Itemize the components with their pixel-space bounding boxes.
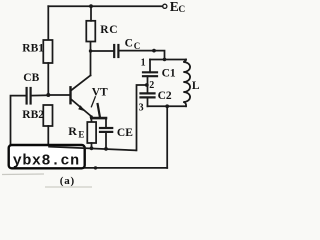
wire C2 bottom leg <box>147 97 149 106</box>
label EC <box>170 0 186 15</box>
node CC tap dot <box>89 49 92 52</box>
node RE rail dot <box>90 146 94 150</box>
svg-text:3: 3 <box>139 103 144 114</box>
resistor RE <box>87 122 96 143</box>
svg-text:ybx8.cn: ybx8.cn <box>13 152 80 169</box>
label CC <box>125 37 141 51</box>
label RE <box>68 124 84 140</box>
svg-text:VT: VT <box>92 86 108 98</box>
scan shadow marks <box>2 173 44 176</box>
watermark ybx8.cn box <box>9 145 85 168</box>
wire RC top to rail <box>90 6 92 21</box>
wire left column to RB1 <box>47 6 49 40</box>
svg-text:E: E <box>78 130 84 140</box>
node base junction dot <box>46 93 50 97</box>
wire C1 top leg <box>149 60 151 73</box>
wire CB right to base node <box>31 94 49 96</box>
wire tank top side <box>150 59 186 61</box>
wire C1 bottom to node 2 <box>147 76 149 85</box>
wire RE bottom leg <box>91 143 93 148</box>
svg-text:C: C <box>134 41 141 51</box>
node tank top junction dot <box>163 58 167 62</box>
svg-text:RB1: RB1 <box>22 42 44 54</box>
wire CC to tank feed <box>118 51 164 60</box>
svg-text:E: E <box>170 0 179 14</box>
wire CB left to left column <box>11 96 27 168</box>
capacitor CE <box>100 128 112 132</box>
wire collector up to RC <box>90 42 92 76</box>
node emitter dot <box>90 115 93 118</box>
node top junction dot <box>89 4 93 8</box>
wire tank bottom side <box>148 105 187 107</box>
svg-text:R: R <box>68 124 77 138</box>
capacitor C2 <box>141 93 155 97</box>
svg-text:C1: C1 <box>162 68 176 80</box>
wire emitter to CE <box>91 117 106 120</box>
wire base lead <box>48 94 69 96</box>
capacitor C1 <box>143 72 157 76</box>
wire emitter ground rail <box>48 147 136 151</box>
wire CE bottom leg <box>105 132 107 149</box>
wire ground rail bottom <box>11 167 168 169</box>
wire C2 top leg <box>147 85 149 93</box>
svg-text:L: L <box>192 80 200 92</box>
resistor RB2 <box>43 105 52 126</box>
wire RB1 bottom to base node <box>47 63 49 95</box>
wire CE top leg <box>105 118 107 128</box>
terminal EC open circle <box>163 4 167 8</box>
wire node 2 to left drop <box>137 85 147 150</box>
node ground rail blob <box>94 166 97 169</box>
svg-text:(a): (a) <box>60 175 75 187</box>
svg-text:CE: CE <box>117 127 133 139</box>
inductor L <box>183 60 190 107</box>
capacitor CC <box>114 45 118 57</box>
capacitor CB <box>27 88 31 104</box>
wire collector to CC <box>91 50 115 52</box>
svg-text:RC: RC <box>100 24 118 36</box>
transistor VT <box>71 75 92 116</box>
svg-text:C2: C2 <box>158 90 172 102</box>
svg-text:CB: CB <box>23 72 39 84</box>
node 3 dot <box>165 104 169 108</box>
wire RB2 bottom down to ground rail <box>47 126 49 147</box>
VT leader strokes <box>91 97 95 107</box>
wire emitter node to RE <box>90 116 92 122</box>
svg-text:C: C <box>125 37 133 49</box>
svg-text:C: C <box>178 5 185 15</box>
node feed dot <box>152 49 156 53</box>
resistor RC <box>86 21 95 42</box>
svg-text:2: 2 <box>149 80 154 91</box>
wire node 3 down to ground rail <box>166 106 168 168</box>
node CE rail dot <box>104 147 108 151</box>
resistor RB1 <box>43 40 52 63</box>
svg-text:RB2: RB2 <box>22 109 44 121</box>
node 2 dot <box>145 83 149 87</box>
wire top rail <box>48 5 162 7</box>
svg-text:1: 1 <box>141 58 146 69</box>
